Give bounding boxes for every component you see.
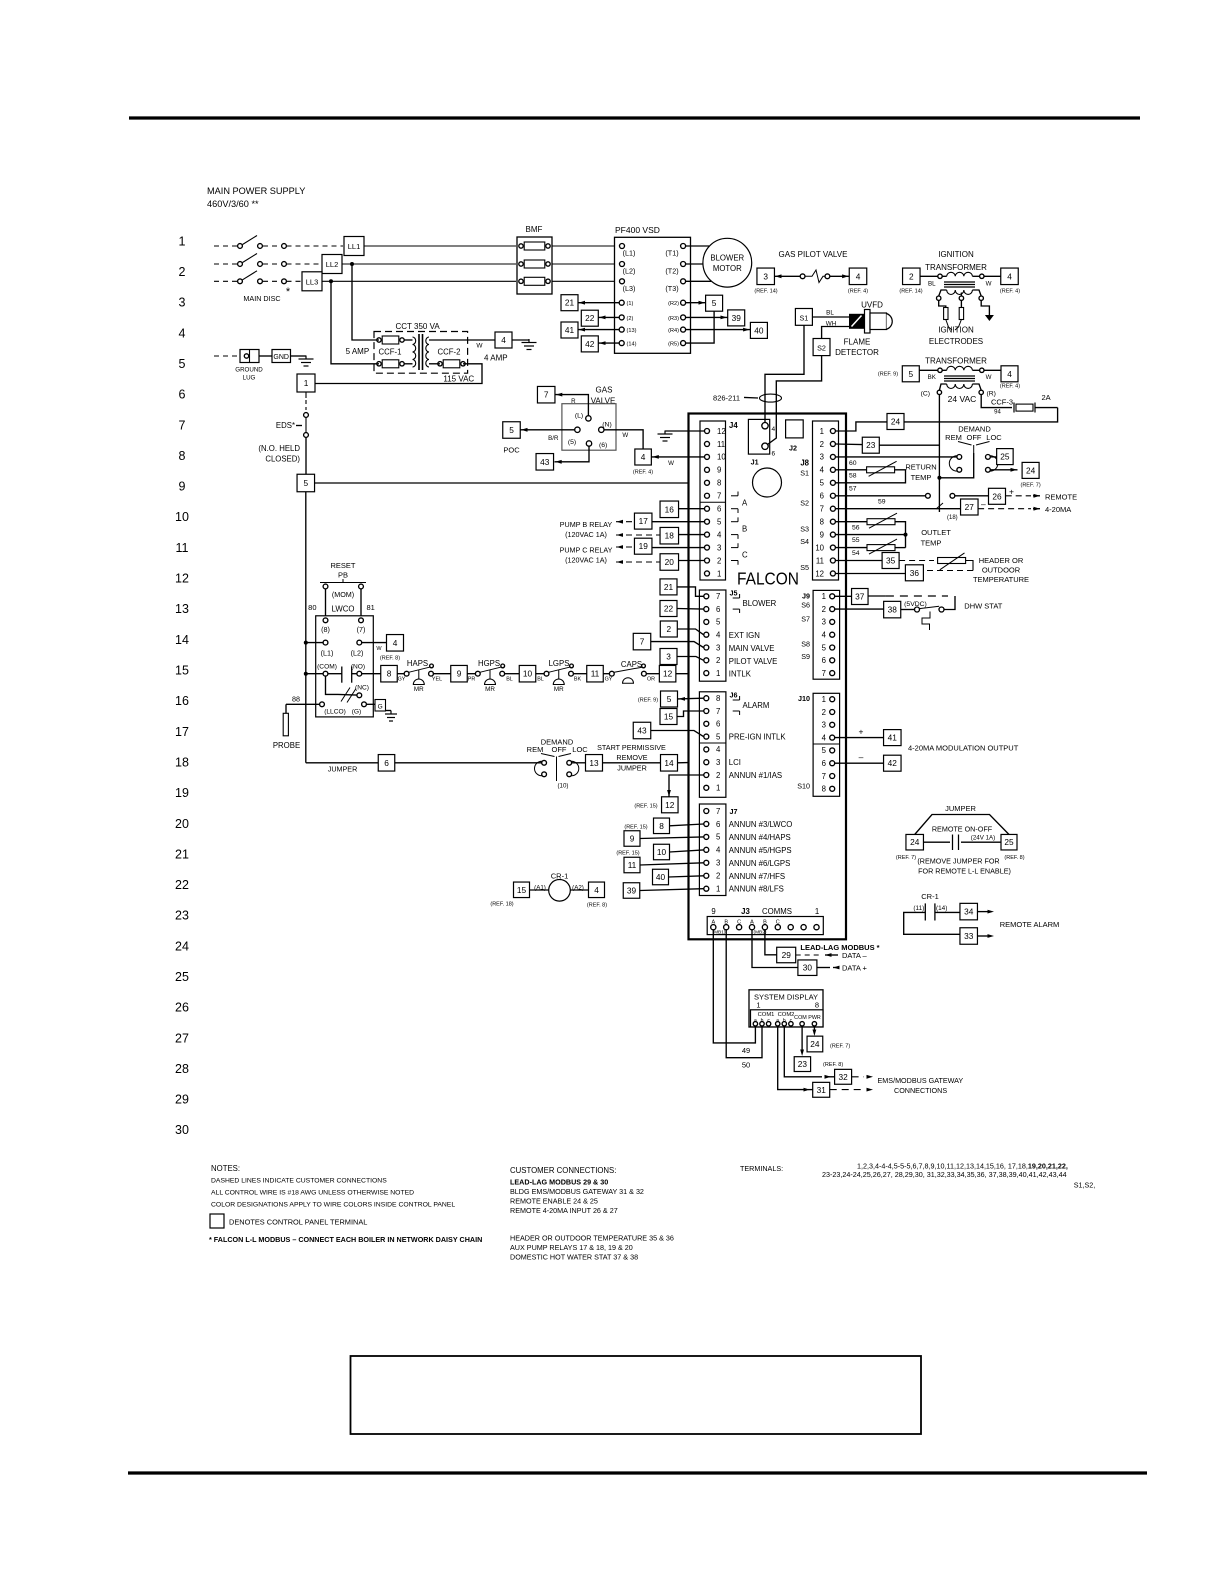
svg-text:7: 7 xyxy=(544,390,549,400)
terminal box 9 xyxy=(451,665,468,682)
svg-text:S10: S10 xyxy=(797,782,810,791)
svg-text:PUMP C RELAY: PUMP C RELAY xyxy=(560,546,613,555)
svg-text:A: A xyxy=(711,920,715,926)
svg-text:BMF: BMF xyxy=(526,225,543,234)
secondary ign xyxy=(947,290,973,295)
svg-text:JUMPER: JUMPER xyxy=(328,765,358,774)
svg-text:40: 40 xyxy=(754,325,764,335)
svg-text:(C): (C) xyxy=(921,391,930,398)
svg-text:14: 14 xyxy=(664,758,674,768)
svg-text:39: 39 xyxy=(732,313,742,323)
svg-text:(REF. 18): (REF. 18) xyxy=(490,902,513,908)
svg-text:4: 4 xyxy=(1007,369,1012,379)
svg-text:1: 1 xyxy=(822,695,826,704)
svg-text:LOC: LOC xyxy=(986,433,1002,442)
wire box6 to demand switch xyxy=(395,762,542,764)
svg-text:C: C xyxy=(742,550,748,559)
svg-text:3: 3 xyxy=(716,643,720,652)
svg-text:1: 1 xyxy=(716,669,720,678)
terminal box 5 on R2 xyxy=(706,295,723,311)
svg-text:(REF. 14): (REF. 14) xyxy=(754,289,777,295)
svg-text:3: 3 xyxy=(716,859,720,868)
wire to box 10 xyxy=(505,673,520,675)
svg-text:OFF: OFF xyxy=(967,433,982,442)
terminal box 20 xyxy=(660,554,679,571)
svg-text:43: 43 xyxy=(637,725,647,735)
svg-text:11: 11 xyxy=(816,556,824,565)
relay contact bracket C xyxy=(731,547,738,549)
svg-text:18: 18 xyxy=(665,531,675,541)
primary coil xyxy=(413,337,416,367)
svg-text:DATA +: DATA + xyxy=(842,964,868,973)
terminal box 3 pilot xyxy=(757,268,775,285)
svg-text:4: 4 xyxy=(594,885,599,895)
svg-text:9: 9 xyxy=(717,466,721,475)
svg-text:DENOTES CONTROL PANEL TERMI: DENOTES CONTROL PANEL TERMINAL xyxy=(229,1218,367,1227)
svg-text:(REF. 4): (REF. 4) xyxy=(1000,384,1020,390)
svg-text:2: 2 xyxy=(822,605,826,614)
svg-text:27: 27 xyxy=(175,1031,189,1045)
terminal box 19 xyxy=(634,538,652,554)
svg-text:BK: BK xyxy=(928,374,937,381)
svg-text:(REF. 4): (REF. 4) xyxy=(848,289,868,295)
svg-text:39: 39 xyxy=(627,885,637,895)
terminal box 5 xyxy=(297,474,315,492)
terminal box 22 to J5-6 xyxy=(660,601,677,617)
svg-text:9: 9 xyxy=(630,833,635,843)
terminal box 2 ign xyxy=(903,268,921,285)
svg-text:CCF-1: CCF-1 xyxy=(379,348,402,357)
svg-text:18: 18 xyxy=(175,755,189,769)
wire (C) down to demand switch and (18) xyxy=(938,395,940,478)
svg-text:(L1): (L1) xyxy=(623,249,636,258)
svg-text:TRANSFORMER: TRANSFORMER xyxy=(925,357,987,366)
svg-text:25: 25 xyxy=(175,970,189,984)
fuse CCF-2 bottom xyxy=(438,362,442,366)
wire S2 to J1-6 xyxy=(768,356,822,445)
wire J3-B1 to display 50 xyxy=(726,930,762,1058)
revision box (empty) xyxy=(351,1356,922,1434)
svg-text:12: 12 xyxy=(175,572,189,586)
terminal box 43 to J6-5 xyxy=(633,722,651,739)
svg-text:31: 31 xyxy=(817,1085,827,1095)
svg-text:GY: GY xyxy=(605,677,613,683)
fuse CCF-1 top xyxy=(377,338,381,342)
data- lead xyxy=(796,954,820,956)
svg-text:HEADER OR OUTDOOR TEMPERATURE: HEADER OR OUTDOOR TEMPERATURE 35 & 36 xyxy=(510,1234,674,1243)
svg-text:42: 42 xyxy=(888,758,898,768)
svg-text:4: 4 xyxy=(501,335,506,345)
svg-text:OFF: OFF xyxy=(552,745,567,754)
svg-text:TRANSFORMER: TRANSFORMER xyxy=(925,263,987,272)
relay contact bracket B xyxy=(731,521,738,523)
core ign xyxy=(944,281,975,283)
svg-text:1: 1 xyxy=(756,1001,760,1010)
svg-text:2: 2 xyxy=(909,271,914,281)
svg-text:13: 13 xyxy=(589,758,599,768)
svg-text:460V/3/60 **: 460V/3/60 ** xyxy=(207,199,259,209)
svg-text:5: 5 xyxy=(712,298,717,308)
svg-text:5: 5 xyxy=(509,425,514,435)
terminal box 24 display xyxy=(807,1036,823,1052)
svg-text:24: 24 xyxy=(891,416,901,426)
terminal box 41 output xyxy=(884,730,902,746)
terminal box 17 xyxy=(634,513,652,529)
svg-text:20: 20 xyxy=(175,817,189,831)
svg-text:DHW STAT: DHW STAT xyxy=(964,602,1002,611)
svg-text:27: 27 xyxy=(965,502,975,512)
svg-text:CCF-3: CCF-3 xyxy=(991,398,1013,407)
svg-text:(REF. 7): (REF. 7) xyxy=(1021,483,1041,489)
wire J6-2 to box 12 (REF. 15) xyxy=(669,775,704,797)
svg-text:(REF. 8): (REF. 8) xyxy=(1004,855,1024,861)
svg-text:*: * xyxy=(286,286,291,298)
svg-text:2: 2 xyxy=(717,556,721,565)
svg-text:DASHED LINES INDICATE CUSTOMER: DASHED LINES INDICATE CUSTOMER CONNECTIO… xyxy=(211,1178,387,1185)
wire J8-12 to box 36 xyxy=(836,573,906,575)
terminal box 42 output xyxy=(884,755,902,771)
terminal box 32 xyxy=(835,1069,852,1084)
svg-text:29: 29 xyxy=(175,1093,189,1107)
terminal box 40 to J7-2 xyxy=(653,869,669,885)
svg-text:(6): (6) xyxy=(599,442,607,449)
svg-text:G: G xyxy=(378,703,383,710)
svg-text:30: 30 xyxy=(803,963,813,973)
wire BL xyxy=(812,316,849,318)
svg-text:ELECTRODES: ELECTRODES xyxy=(929,337,983,346)
terminal box 40 xyxy=(750,322,767,338)
svg-text:30: 30 xyxy=(175,1123,189,1137)
svg-text:PF400 VSD: PF400 VSD xyxy=(615,225,660,235)
svg-text:PB: PB xyxy=(338,571,348,580)
grommet 826-211 xyxy=(760,394,782,402)
svg-text:HGPS: HGPS xyxy=(478,659,500,668)
terminal box 3 to J5-2 xyxy=(660,649,677,665)
svg-text:FLAME: FLAME xyxy=(844,338,871,347)
svg-text:WH: WH xyxy=(826,320,837,327)
svg-text:J5: J5 xyxy=(730,589,738,598)
svg-text:(REF. 4): (REF. 4) xyxy=(633,470,653,476)
svg-text:MAIN POWER SUPPLY: MAIN POWER SUPPLY xyxy=(207,186,305,196)
svg-text:J7: J7 xyxy=(730,807,738,816)
svg-text:(5): (5) xyxy=(568,439,576,446)
wire R3 to 39 xyxy=(686,316,728,318)
wire LL3 to BMF xyxy=(322,280,516,282)
svg-text:IGNITION: IGNITION xyxy=(938,326,974,335)
wire J8-2 to box 23 xyxy=(836,443,863,446)
svg-text:EMS/MODBUS GATEWAY: EMS/MODBUS GATEWAY xyxy=(878,1076,964,1085)
junction dot LL2 feed xyxy=(350,262,354,266)
main disconnect pole / wire row LL3 xyxy=(214,280,237,282)
svg-text:81: 81 xyxy=(367,603,375,612)
svg-text:2: 2 xyxy=(822,708,826,717)
svg-text:8: 8 xyxy=(820,517,824,526)
svg-text:UVFD: UVFD xyxy=(861,301,883,310)
svg-text:17: 17 xyxy=(639,516,649,526)
svg-text:23: 23 xyxy=(798,1059,808,1069)
svg-text:(2): (2) xyxy=(627,316,634,322)
wire (R) to fuse CCF-3 xyxy=(981,395,1012,408)
terminal box 12 (REF. 15) xyxy=(662,797,679,813)
svg-text:2: 2 xyxy=(716,872,720,881)
wire lug to GND xyxy=(259,355,272,357)
svg-text:BLDG EMS/MODBUS GATEWAY 31 &: BLDG EMS/MODBUS GATEWAY 31 & 32 xyxy=(510,1187,644,1196)
terminal box 11 xyxy=(587,665,604,682)
svg-text:24 VAC: 24 VAC xyxy=(948,394,977,404)
svg-text:(MOM): (MOM) xyxy=(332,590,354,599)
svg-text:4: 4 xyxy=(822,631,827,640)
svg-text:(REF. 7): (REF. 7) xyxy=(830,1044,850,1050)
svg-text:14: 14 xyxy=(175,633,189,647)
svg-text:CONNECTIONS: CONNECTIONS xyxy=(894,1086,947,1095)
svg-text:START PERMISSIVE: START PERMISSIVE xyxy=(597,743,666,752)
svg-text:4: 4 xyxy=(717,530,722,539)
terminal box 4 pilot xyxy=(849,268,867,285)
main disconnect pole / wire row LL2 xyxy=(214,263,237,265)
svg-text:(L2): (L2) xyxy=(351,649,364,658)
wire R5 to 5 xyxy=(686,311,715,343)
svg-text:J1: J1 xyxy=(751,458,759,467)
svg-text:1: 1 xyxy=(716,885,720,894)
secondary coil xyxy=(426,337,429,367)
probe electrode xyxy=(283,713,288,736)
top rule xyxy=(129,116,1140,119)
terminal box 6 xyxy=(378,755,395,772)
svg-text:7: 7 xyxy=(640,637,645,647)
svg-text:9: 9 xyxy=(711,907,715,916)
svg-text:50: 50 xyxy=(742,1061,750,1070)
wire S1 to J1-4 xyxy=(765,325,804,422)
svg-text:CCT 350 VA: CCT 350 VA xyxy=(396,322,441,331)
wire display com to box 23 xyxy=(801,1026,803,1051)
svg-text:1: 1 xyxy=(179,234,186,248)
connector J10 xyxy=(813,693,840,796)
terminal box 9 to J7-5 xyxy=(624,831,640,847)
svg-text:(11): (11) xyxy=(913,905,924,912)
connector J4 xyxy=(700,421,726,580)
svg-text:BL: BL xyxy=(537,677,544,683)
svg-text:S5: S5 xyxy=(800,563,809,572)
svg-text:13: 13 xyxy=(175,602,189,616)
detector body xyxy=(849,314,865,329)
terminal box 10 to J7-4 xyxy=(654,844,670,860)
svg-text:B: B xyxy=(724,920,728,926)
svg-text:REMOTE ALARM: REMOTE ALARM xyxy=(1000,920,1060,929)
svg-text:S2: S2 xyxy=(800,499,809,508)
svg-text:(14): (14) xyxy=(936,905,947,912)
svg-text:32: 32 xyxy=(838,1072,848,1082)
svg-text:7: 7 xyxy=(716,807,720,816)
svg-text:94: 94 xyxy=(994,410,1001,416)
system display xyxy=(749,990,823,1027)
wire rail to L1 xyxy=(306,642,323,644)
header/outdoor sensor xyxy=(836,560,883,562)
svg-text:W: W xyxy=(376,646,382,652)
svg-text:34: 34 xyxy=(964,907,974,917)
svg-text:23: 23 xyxy=(175,909,189,923)
svg-text:PR: PR xyxy=(468,677,476,683)
terminal box 23 xyxy=(862,437,879,453)
svg-text:TEMP: TEMP xyxy=(911,473,932,482)
svg-text:19: 19 xyxy=(175,786,189,800)
svg-text:REMOVE: REMOVE xyxy=(616,753,647,762)
wire J3-B2 to box 29 xyxy=(765,930,777,955)
svg-text:(L): (L) xyxy=(575,413,583,420)
svg-text:8: 8 xyxy=(659,821,664,831)
svg-text:(10): (10) xyxy=(557,783,568,790)
svg-text:J8: J8 xyxy=(800,459,809,468)
svg-text:(24V 1A): (24V 1A) xyxy=(971,835,995,842)
wire J9-2 to box 38 xyxy=(835,608,884,610)
svg-text:–: – xyxy=(981,499,986,509)
svg-text:CUSTOMER CONNECTIONS:: CUSTOMER CONNECTIONS: xyxy=(510,1166,616,1175)
ground symbol at box 4 xyxy=(512,339,529,341)
svg-text:W: W xyxy=(476,343,483,350)
svg-text:(REF. 14): (REF. 14) xyxy=(899,289,922,295)
svg-text:J9: J9 xyxy=(802,592,810,601)
terminal box 21 to J5-7 xyxy=(660,579,677,595)
svg-text:9: 9 xyxy=(820,530,824,539)
svg-text:(R): (R) xyxy=(987,391,996,398)
secondary 24VAC xyxy=(947,384,973,389)
svg-text:58: 58 xyxy=(849,473,857,480)
terminal box 27 xyxy=(961,499,979,515)
svg-text:GROUND: GROUND xyxy=(235,367,263,374)
svg-text:MR: MR xyxy=(414,686,424,693)
dhw stat xyxy=(835,595,852,597)
svg-text:COM PWR: COM PWR xyxy=(794,1015,821,1021)
svg-text:REMOTE 4-20MA INPUT 26 & 27: REMOTE 4-20MA INPUT 26 & 27 xyxy=(510,1206,618,1215)
svg-text:BL: BL xyxy=(826,310,834,317)
svg-text:15: 15 xyxy=(517,885,527,895)
blower motor xyxy=(703,238,752,287)
svg-text:10: 10 xyxy=(523,669,533,679)
svg-text:BL: BL xyxy=(928,281,936,288)
wire rail to box 6 xyxy=(306,762,379,764)
svg-text:DATA –: DATA – xyxy=(842,951,868,960)
svg-text:16: 16 xyxy=(175,694,189,708)
svg-text:W: W xyxy=(986,374,992,381)
core xfmr2 xyxy=(944,375,975,377)
svg-text:REMOTE ENABLE 24 & 25: REMOTE ENABLE 24 & 25 xyxy=(510,1197,598,1206)
terminal box 12 xyxy=(659,665,676,682)
svg-text:S8: S8 xyxy=(801,640,810,649)
terminal box 16 xyxy=(660,501,679,518)
svg-text:2: 2 xyxy=(666,624,671,634)
svg-text:S9: S9 xyxy=(801,652,810,661)
wire display pwr to box 24 xyxy=(813,1026,815,1031)
svg-text:1: 1 xyxy=(716,784,720,793)
svg-text:2: 2 xyxy=(716,771,720,780)
svg-text:12: 12 xyxy=(815,569,824,578)
svg-text:(13): (13) xyxy=(627,328,637,334)
svg-text:56: 56 xyxy=(852,524,860,531)
terminal box 5 POC xyxy=(503,422,521,439)
svg-text:BLOWER: BLOWER xyxy=(710,254,744,263)
svg-text:1: 1 xyxy=(820,427,824,436)
svg-text:(LLCO): (LLCO) xyxy=(324,709,346,716)
wire BMF to PF400 L2 xyxy=(552,263,619,265)
svg-text:JUMPER: JUMPER xyxy=(945,804,976,813)
svg-text:EXT IGN: EXT IGN xyxy=(729,631,760,640)
svg-text:(1): (1) xyxy=(627,301,634,307)
wire 21 to (1) xyxy=(578,302,619,304)
svg-text:10: 10 xyxy=(175,510,189,524)
svg-text:10: 10 xyxy=(657,847,667,857)
svg-text:5: 5 xyxy=(667,694,672,704)
svg-text:B/R: B/R xyxy=(548,435,559,442)
svg-text:88: 88 xyxy=(292,695,300,704)
wire gas valve W to J4-10 xyxy=(652,456,705,458)
svg-text:36: 36 xyxy=(910,568,920,578)
svg-text:(REF. 15): (REF. 15) xyxy=(634,804,657,810)
terminal box 18 xyxy=(660,527,679,544)
svg-text:(REF. 15): (REF. 15) xyxy=(624,824,647,830)
svg-text:22: 22 xyxy=(585,313,595,323)
svg-text:LL2: LL2 xyxy=(326,260,339,269)
svg-text:ANNUN #6/LGPS: ANNUN #6/LGPS xyxy=(729,859,791,868)
svg-text:42: 42 xyxy=(585,339,595,349)
internal wires xyxy=(404,339,413,341)
svg-text:6: 6 xyxy=(820,492,824,501)
terminal box 33 xyxy=(960,928,978,945)
wire T1 to motor xyxy=(686,245,709,247)
svg-text:(REF. 8): (REF. 8) xyxy=(380,656,400,662)
wire box5 to FALCON J4-8 xyxy=(315,482,705,484)
terminal box 37 xyxy=(852,589,869,605)
svg-text:(L3): (L3) xyxy=(623,284,636,293)
wire display com2-a to box 31 xyxy=(778,1026,804,1090)
contact bars COM-NO xyxy=(341,667,343,683)
svg-text:S2: S2 xyxy=(817,344,826,353)
wire box23 to 24VAC common xyxy=(879,444,939,446)
ems gateway dashed leads xyxy=(852,1076,864,1078)
wire L2 to box 4 xyxy=(362,642,386,644)
svg-text:24: 24 xyxy=(810,1039,820,1049)
bottom rule xyxy=(128,1471,1147,1474)
rail from box5 down to jumper row xyxy=(305,492,307,763)
svg-text:41: 41 xyxy=(565,325,575,335)
wire to box 12 xyxy=(646,673,659,675)
terminal box 14 xyxy=(661,755,678,772)
svg-text:4 AMP: 4 AMP xyxy=(484,354,508,363)
svg-text:REM: REM xyxy=(527,745,544,754)
svg-text:LUG: LUG xyxy=(243,375,256,382)
core xyxy=(418,334,420,370)
wire box13 to box14 xyxy=(603,762,661,764)
svg-text:16: 16 xyxy=(665,504,675,514)
fuse CCF-3 2A xyxy=(1016,404,1033,411)
svg-text:25: 25 xyxy=(1000,452,1010,462)
svg-text:(R5): (R5) xyxy=(668,342,679,348)
svg-text:2A: 2A xyxy=(1042,393,1051,402)
svg-text:8: 8 xyxy=(387,669,392,679)
wire rail to COM xyxy=(306,673,323,675)
svg-text:6: 6 xyxy=(716,720,720,729)
svg-text:4-20MA MODULATION OUTPUT: 4-20MA MODULATION OUTPUT xyxy=(908,744,1019,753)
switch EDS (N.O. held closed) xyxy=(304,413,309,418)
svg-text:ALL CONTROL WIRE IS #18 AWG UN: ALL CONTROL WIRE IS #18 AWG UNLESS OTHER… xyxy=(211,1190,414,1197)
svg-text:5: 5 xyxy=(908,369,913,379)
terminal box 15 to J6-7 xyxy=(660,709,677,725)
svg-text:MAIN VALVE: MAIN VALVE xyxy=(729,644,775,653)
svg-text:5: 5 xyxy=(179,357,186,371)
alarm contact bracket xyxy=(733,699,740,701)
svg-text:8: 8 xyxy=(815,1001,819,1010)
wire R2 to 5 xyxy=(686,302,706,304)
svg-text:11: 11 xyxy=(717,440,725,449)
wire secondary top to box 4 xyxy=(468,339,495,341)
